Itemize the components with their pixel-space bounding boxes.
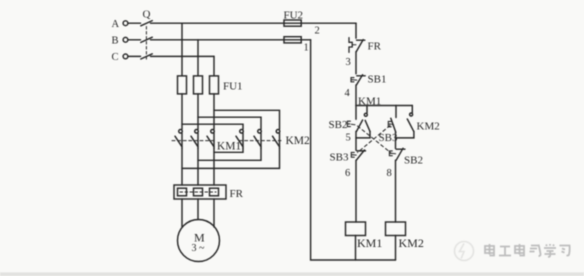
motor M [178, 220, 220, 262]
wire control return [311, 40, 396, 260]
wire KM1 c3 down to FR [213, 149, 215, 186]
svg-text:KM1: KM1 [217, 141, 242, 153]
wire phase A vertical [181, 23, 183, 76]
wire jog phase A to KM2 c4 [182, 124, 243, 129]
wire phase C below fuse [213, 94, 215, 129]
svg-text:3: 3 [346, 57, 351, 68]
contactor KM2 main contact 6 [273, 130, 280, 149]
svg-text:SB1: SB1 [368, 74, 387, 86]
wire node 6 to coil [355, 160, 357, 222]
linkage dashes KM1 group [172, 140, 215, 142]
wire row A fuse to control [301, 22, 356, 24]
linkage dashes KM2 group [239, 140, 281, 142]
fuse FU1-3 [210, 76, 219, 94]
wire branch top [356, 105, 412, 107]
svg-text:3 ~: 3 ~ [192, 243, 206, 254]
svg-text:KM2: KM2 [417, 121, 440, 133]
svg-text:SB2: SB2 [329, 119, 348, 131]
wire FR to motor mid [197, 199, 199, 220]
contactor KM2 main contact 4 [236, 130, 243, 149]
wire FR to motor left [181, 199, 183, 227]
thermal relay FR box [174, 185, 226, 199]
watermark bar [0, 272, 584, 276]
svg-text:FU1: FU1 [223, 81, 243, 93]
node C terminal [123, 54, 140, 59]
svg-text:2: 2 [315, 26, 320, 37]
svg-text:KM2: KM2 [286, 135, 311, 147]
svg-text:FR: FR [230, 188, 244, 200]
fuse FU2-2 (row A) [284, 20, 301, 26]
svg-text:SB3: SB3 [330, 152, 349, 164]
wire jog phase C to KM2 c6 [214, 110, 280, 129]
fuse FU2-1 (row B) [284, 37, 301, 43]
wire KM1 c2 down to FR [197, 149, 199, 186]
fuse FU1-2 [194, 76, 203, 94]
wire KM1 c1 down to FR [181, 149, 183, 186]
contactor KM2 main contact 5 [254, 130, 261, 149]
wire row A [151, 22, 285, 24]
FR NC contact (control) [349, 38, 365, 53]
svg-text:4: 4 [345, 88, 351, 99]
wire KM2 c6 bottom to phase A [182, 149, 280, 169]
pushbutton SB3 (NO start rev) [388, 106, 396, 133]
watermark text 电工电气学习 (drawn strokes) [485, 244, 570, 257]
pushbutton SB1 (NC stop) [351, 75, 365, 85]
wire node 4 [355, 85, 357, 106]
contactor KM1 main contact 1 [175, 130, 182, 149]
node A terminal [123, 21, 140, 26]
switch Q [141, 21, 153, 61]
contactor KM2 aux contact [396, 106, 414, 138]
svg-text:6: 6 [345, 168, 350, 179]
wire phase C vertical [213, 56, 215, 76]
svg-text:FU2: FU2 [284, 10, 304, 22]
wire node 7 [395, 132, 397, 148]
svg-text:8: 8 [387, 168, 392, 179]
pushbutton SB2 NC (right lower) [389, 148, 405, 160]
node B terminal [123, 37, 140, 42]
wire FR to motor right [213, 199, 215, 227]
wire KM2 c4 bottom to phase C [214, 149, 243, 153]
svg-text:5: 5 [346, 133, 351, 144]
svg-text:KM1: KM1 [358, 96, 381, 108]
wire row C [151, 55, 215, 57]
coil KM2 [386, 222, 406, 236]
wire node 5 [355, 131, 357, 150]
wire row B fuse to corner [301, 39, 310, 41]
pushbutton SB3 NC (left lower) [351, 150, 365, 160]
svg-text:1: 1 [304, 43, 309, 54]
svg-text:A: A [112, 19, 120, 30]
pushbutton SB2 (NO start fwd) [347, 106, 362, 132]
svg-text:KM1: KM1 [357, 236, 382, 250]
contactor KM1 main contact 3 [207, 130, 214, 149]
svg-text:B: B [112, 36, 119, 47]
mech link dash SB3 [358, 126, 391, 153]
svg-text:FR: FR [368, 41, 382, 53]
fuse FU1-1 [178, 76, 187, 94]
wire phase B vertical [197, 40, 199, 76]
wire coil KM1 bottom [355, 236, 357, 261]
wire jog phase B to KM2 c5 [198, 117, 261, 129]
svg-text:SB2: SB2 [404, 155, 423, 167]
wire phase A below fuse [181, 94, 183, 129]
wire row B [151, 39, 285, 41]
contactor KM1 main contact 2 [191, 130, 198, 149]
wire node 3 [355, 52, 357, 74]
mech link dash SB2 [358, 126, 391, 153]
svg-text:KM2: KM2 [399, 236, 424, 250]
svg-text:SB3: SB3 [379, 132, 398, 144]
wire control feed down [355, 23, 357, 38]
svg-text:Q: Q [143, 9, 151, 21]
wire node 8 to coil [395, 160, 397, 222]
contactor KM1 aux contact [356, 106, 370, 138]
wire KM2 c5 bottom to phase B [198, 149, 261, 161]
watermark logo [455, 242, 474, 261]
coil KM1 [346, 222, 366, 236]
svg-text:C: C [112, 52, 119, 63]
wire phase B below fuse [197, 94, 199, 129]
wire coil KM2 bottom [395, 236, 397, 261]
